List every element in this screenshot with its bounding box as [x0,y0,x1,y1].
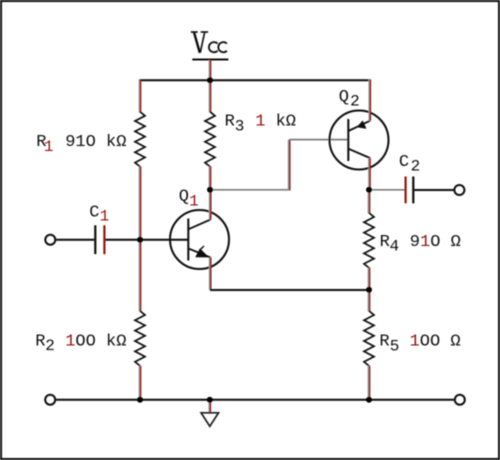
label R3 1 kOhm [225,113,296,136]
bottom-right terminal [455,395,465,405]
svg-text:R: R [380,233,390,252]
wire right column (emitter node to R5) [368,290,369,311]
wire C2 to output terminal [414,189,454,191]
wire top rail [139,79,371,81]
capacitor C1 [95,225,104,254]
wire C1 to input junction [106,239,141,241]
wire output node to C2 [369,189,405,191]
transistor Q2 [330,111,389,170]
resistor R1 [135,112,145,167]
junction dot input node [137,237,143,243]
wire Q2 collector lead [369,158,370,190]
wire Q2 base riser (vertical) [288,140,289,191]
svg-text:1OO Ω: 1OO Ω [410,333,461,352]
wire riser to Q2 base (horizontal) [289,139,348,141]
bottom-left terminal [45,395,55,405]
junction dot output node [366,187,372,193]
svg-text:C: C [89,203,99,222]
wire Q1 collector lead [209,190,210,220]
svg-text:91O kΩ: 91O kΩ [65,133,126,152]
svg-text:1: 1 [100,208,110,226]
output terminal [454,185,464,195]
wire Q1 emitter lead [209,258,210,291]
wire collector node to Q2 base riser (horizontal) [210,189,290,191]
svg-text:1: 1 [189,193,199,211]
wire middle column (R3 to collector junction) [209,166,210,190]
wire input to C1 [56,239,94,241]
resistor R4 [364,213,374,268]
svg-text:R: R [225,113,235,132]
svg-text:3: 3 [235,118,245,136]
wire input node to Q1 base [140,239,188,241]
junction dot at Vcc / top rail [207,77,213,83]
svg-text:2: 2 [45,337,55,355]
wire right column lower (R5 to bottom rail) [368,366,369,400]
junction dot collector node [207,187,213,193]
wire bottom rail [56,399,454,401]
label R1 910 kOhm [36,133,126,156]
wire ground stub [209,400,210,413]
label C2 [399,153,420,176]
label R5 100 Ohm [379,333,460,356]
junction dot bottom ground [207,397,213,403]
resistor R2 [135,311,145,366]
svg-text:R: R [379,333,389,352]
svg-text:5: 5 [390,337,400,355]
svg-text:2: 2 [350,93,360,111]
svg-text:Q: Q [179,187,189,206]
resistor R5 [364,311,374,366]
svg-text:Q: Q [339,88,349,107]
svg-text:1 kΩ: 1 kΩ [255,113,296,132]
junction dot bottom left column [137,397,143,403]
power symbol Vcc [191,32,229,60]
wire left column (R1 to C1 junction) [139,166,140,240]
label R2 100 kOhm [35,332,126,355]
wire right column (R4 to emitter node) [368,268,369,291]
svg-text:4: 4 [390,237,400,255]
wire Q1 emitter run (horizontal) [210,289,369,291]
wire Q2 emitter lead (to top rail) [369,80,370,121]
svg-text:2: 2 [411,158,421,176]
svg-text:1: 1 [44,138,54,156]
wire middle column (rail to R3) [209,80,210,112]
svg-text:C: C [399,153,409,172]
junction dot emitter node [366,287,372,293]
svg-text:91O Ω: 91O Ω [410,233,461,252]
ground [201,413,218,427]
resistor R3 [205,112,215,167]
wire Vcc stub [209,60,210,80]
wire left column upper (rail to R1) [139,80,140,113]
input terminal [45,235,55,245]
svg-text:R: R [35,332,45,351]
wire left column lower (R2 to bottom rail) [139,366,140,400]
label Q2 [339,88,360,111]
label C1 [89,203,109,225]
wire right column (output node to R4) [368,190,369,213]
capacitor C2 [406,177,414,204]
transistor Q1 [170,210,229,269]
junction dot bottom right column [366,397,372,403]
svg-text:1OO kΩ: 1OO kΩ [65,332,126,351]
wire left column (C1 junction to R2) [139,240,140,311]
label R4 910 Ohm [380,233,461,256]
label Q1 [179,187,199,210]
